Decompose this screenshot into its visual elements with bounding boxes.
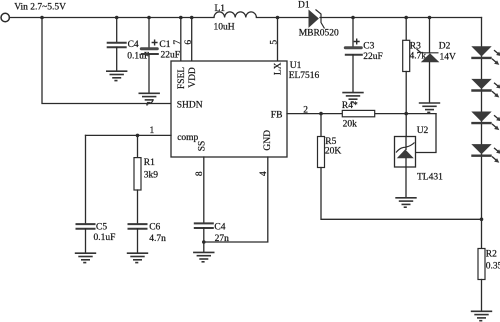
inductor L1 (214, 12, 256, 18)
ground C4b (193, 252, 214, 261)
svg-text:U2: U2 (417, 126, 429, 136)
wire C4b to ground (203, 228, 205, 252)
svg-text:3k9: 3k9 (144, 171, 159, 181)
wire C5 to ground (85, 229, 87, 253)
wire comp left vertical to C5 (85, 135, 87, 224)
node pin7 junction (179, 16, 183, 20)
node LX junction (276, 16, 280, 20)
resistor R4 (342, 110, 374, 116)
wire U2 anode to ground (405, 167, 407, 198)
svg-text:22uF: 22uF (161, 50, 181, 60)
svg-text:C3: C3 (363, 41, 374, 51)
wire SS pin drop (203, 157, 205, 223)
input terminal circle (1, 13, 9, 21)
svg-text:10uH: 10uH (214, 23, 235, 33)
wire C3 drop (352, 18, 354, 47)
svg-text:EL7516: EL7516 (289, 71, 320, 81)
wire LED column (481, 18, 483, 220)
svg-text:Vin 2.7~5.5V: Vin 2.7~5.5V (14, 2, 66, 12)
svg-text:R3: R3 (410, 42, 421, 52)
LED D6 (471, 144, 500, 163)
svg-text:2: 2 (303, 106, 308, 116)
ground C6 (127, 253, 148, 262)
node D2 junction (428, 16, 432, 20)
wire ref corner to U2 (416, 114, 437, 153)
svg-text:L1: L1 (215, 4, 226, 14)
wire LX drop pin5 (277, 18, 279, 62)
wire L1 to D1 (256, 17, 308, 19)
resistor R3 (403, 40, 410, 71)
wire D1 to LED column corner (320, 17, 482, 19)
svg-text:1: 1 (150, 126, 155, 136)
node C4 junction (115, 16, 119, 20)
svg-text:comp: comp (177, 133, 198, 143)
wire LED bottom to R2 (481, 219, 483, 248)
svg-text:GND: GND (263, 130, 273, 151)
node pin6 junction (190, 16, 194, 20)
capacitor C3 (344, 39, 363, 55)
node C3 junction (351, 16, 355, 20)
wire R5 to bottom rail (321, 168, 482, 220)
wire C4 to ground (116, 47, 118, 71)
ground C5 (75, 253, 96, 262)
ground C3 (342, 93, 363, 102)
svg-text:4: 4 (259, 171, 269, 176)
diode D1 (309, 10, 325, 29)
svg-text:FB: FB (271, 110, 283, 120)
wire pin7 drop (180, 18, 182, 62)
wire R2 to ground (481, 280, 483, 312)
wire C1 to ground (148, 54, 150, 93)
node C4b gnd junction (202, 240, 206, 244)
wire comp pin (86, 134, 172, 136)
svg-text:D2: D2 (439, 42, 451, 52)
zener D2 (417, 49, 440, 62)
wire top rail left (terminal to L1) (10, 17, 215, 19)
wire R3 drop (405, 18, 407, 41)
svg-text:TL431: TL431 (417, 173, 443, 183)
ground R2 (471, 311, 492, 320)
ground C4 (106, 71, 127, 80)
svg-text:C1: C1 (159, 40, 170, 50)
svg-text:5: 5 (270, 40, 280, 45)
LED D4 (471, 79, 500, 98)
svg-text:R5: R5 (325, 137, 336, 147)
node C1 junction (147, 16, 151, 20)
svg-text:14V: 14V (440, 53, 457, 63)
svg-text:20K: 20K (325, 146, 342, 156)
wire R5 drop (320, 114, 322, 137)
svg-text:SHDN: SHDN (177, 101, 203, 111)
svg-text:0.35: 0.35 (486, 262, 500, 272)
capacitor C5 (76, 224, 96, 229)
capacitor C4b (194, 223, 214, 228)
svg-text:FSEL: FSEL (177, 67, 187, 89)
capacitor C6 (128, 224, 148, 229)
svg-text:MBR0520: MBR0520 (299, 29, 339, 39)
ground U2 (395, 198, 416, 207)
svg-text:20k: 20k (343, 120, 358, 130)
LED D5 (471, 112, 500, 131)
wire R3 to FB rail (405, 72, 407, 114)
svg-text:4.7n: 4.7n (149, 234, 166, 244)
node bottom rail junction (480, 218, 484, 222)
node R3 junction (404, 16, 408, 20)
svg-text:8: 8 (195, 171, 205, 176)
capacitor C1 (140, 40, 159, 55)
shunt regulator U2 TL431 (395, 137, 416, 168)
svg-text:6: 6 (184, 40, 194, 45)
svg-text:0.1uF: 0.1uF (127, 51, 149, 61)
wire C3 to ground (352, 55, 354, 93)
svg-text:R1: R1 (144, 158, 155, 168)
svg-text:0.1uF: 0.1uF (94, 233, 116, 243)
ground C1 (139, 93, 160, 102)
wire C6 to ground (137, 229, 139, 253)
svg-text:U1: U1 (290, 61, 302, 71)
wire Vin vertical to SHDN (42, 18, 171, 104)
resistor R5 (318, 137, 325, 168)
wire pin6 drop (191, 18, 193, 62)
svg-text:7: 7 (173, 40, 183, 45)
wire R1 drop (137, 135, 139, 157)
wire C1 drop (148, 18, 150, 48)
node comp junction (136, 134, 140, 138)
svg-text:C5: C5 (96, 223, 107, 233)
LED D3 (471, 46, 500, 65)
svg-text:C6: C6 (149, 223, 160, 233)
svg-text:LX: LX (274, 62, 284, 75)
op-amp U1 EL7516 box (171, 61, 287, 157)
resistor R1 (134, 158, 141, 190)
svg-text:R4*: R4* (342, 101, 358, 111)
node FB-R5 junction (319, 112, 323, 116)
svg-text:C4: C4 (128, 40, 139, 50)
svg-text:SS: SS (198, 141, 208, 152)
svg-text:R2: R2 (486, 250, 497, 260)
svg-text:22uF: 22uF (363, 52, 383, 62)
svg-text:D1: D1 (298, 1, 310, 11)
ground C1 squiggle (147, 99, 153, 105)
wire C4 drop (116, 18, 118, 43)
ground D2 (419, 103, 440, 112)
wire GND pin4 to C4b (204, 157, 268, 242)
resistor R2 (478, 249, 485, 280)
svg-text:VDD: VDD (188, 67, 198, 88)
wire R1 to C6 (137, 190, 139, 224)
wire U2 cathode drop (405, 114, 407, 137)
node Vin junction (40, 16, 44, 20)
capacitor C4 (107, 43, 127, 47)
wire D2 drop (429, 18, 431, 53)
node FB-U2 junction (404, 112, 408, 116)
wire FB rail (287, 113, 436, 115)
svg-text:C4: C4 (214, 223, 225, 233)
wire D2 to ground (429, 62, 431, 102)
